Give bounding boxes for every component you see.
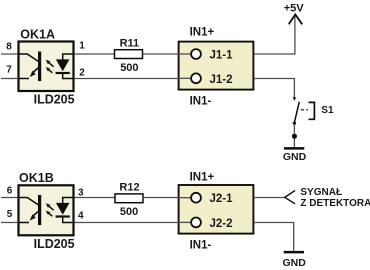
wire pin4 to J2 bbox=[75, 222, 178, 224]
svg-text:GND: GND bbox=[283, 257, 307, 269]
ground bar (S1) bbox=[284, 147, 304, 150]
svg-text:GND: GND bbox=[283, 151, 307, 163]
phototransistor collector (OK1A) bbox=[18, 54, 39, 62]
wire R11 to J1 bbox=[143, 53, 178, 55]
svg-text:S1: S1 bbox=[321, 105, 334, 116]
wire switch to GND bbox=[293, 123, 295, 147]
LED cathode bar bbox=[56, 72, 70, 74]
svg-text:IN1-: IN1- bbox=[190, 240, 212, 252]
svg-text:J2-1: J2-1 bbox=[210, 193, 234, 205]
wire J2-1 signal bbox=[254, 197, 284, 199]
connector J1 box bbox=[179, 42, 254, 90]
svg-text:6: 6 bbox=[7, 186, 13, 197]
LED triangle (OK1A) bbox=[56, 59, 70, 71]
wire stub to J2-1 bbox=[178, 197, 191, 199]
light arrow 2 bbox=[49, 214, 52, 217]
resistor R12 bbox=[115, 194, 143, 203]
svg-text:+5V: +5V bbox=[284, 2, 305, 14]
svg-text:2: 2 bbox=[79, 67, 85, 78]
LED cathode bar bbox=[56, 215, 70, 217]
svg-text:3: 3 bbox=[78, 187, 84, 198]
LED cathode lead bbox=[63, 218, 74, 223]
svg-text:J1-1: J1-1 bbox=[210, 50, 234, 62]
light arrow 1 bbox=[49, 206, 54, 210]
svg-text:7: 7 bbox=[6, 64, 12, 75]
svg-text:4: 4 bbox=[78, 210, 84, 221]
switch S1 lever bbox=[295, 102, 300, 122]
svg-text:J2-2: J2-2 bbox=[210, 218, 233, 230]
wire pin 6 bbox=[1, 197, 18, 199]
svg-text:ILD205: ILD205 bbox=[34, 93, 75, 107]
svg-text:OK1B: OK1B bbox=[19, 171, 54, 185]
pin circle J1-2 bbox=[191, 73, 201, 83]
svg-text:IN1-: IN1- bbox=[190, 95, 212, 107]
light arrow 1 bbox=[49, 63, 54, 67]
switch actuator bracket bbox=[309, 102, 315, 119]
connector J2 box bbox=[179, 185, 254, 234]
wire pin2 to J1 bbox=[75, 78, 178, 80]
svg-text:ILD205: ILD205 bbox=[34, 237, 75, 251]
phototransistor emitter (OK1A) bbox=[18, 68, 39, 79]
svg-text:1: 1 bbox=[79, 40, 85, 51]
svg-text:5: 5 bbox=[7, 209, 13, 220]
resistor R11 bbox=[115, 50, 143, 59]
svg-text:Z DETEKTORA: Z DETEKTORA bbox=[300, 198, 370, 209]
wire pin 7 bbox=[1, 78, 18, 80]
pin circle J2-1 bbox=[191, 193, 201, 203]
signal arrowhead bbox=[285, 190, 295, 203]
emitter arrowhead bbox=[30, 214, 36, 220]
junction dot bbox=[292, 134, 297, 139]
wire stub to J2-2 bbox=[178, 221, 191, 223]
wire stub to J1-1 bbox=[178, 53, 191, 55]
wire pin3 to R12 bbox=[75, 197, 116, 199]
phototransistor base bar (OK1A) bbox=[38, 52, 41, 82]
optocoupler OK1A bbox=[19, 42, 74, 92]
LED triangle (OK1B) bbox=[56, 203, 70, 215]
svg-text:R11: R11 bbox=[120, 37, 140, 49]
pin circle J2-2 bbox=[191, 218, 201, 228]
switch actuator dashed link bbox=[301, 109, 308, 111]
phototransistor collector (OK1B) bbox=[18, 198, 39, 206]
svg-text:IN1+: IN1+ bbox=[190, 27, 215, 39]
svg-text:OK1A: OK1A bbox=[20, 28, 55, 42]
light arrow 2 bbox=[49, 70, 52, 73]
pin circle J1-1 bbox=[191, 49, 201, 59]
svg-text:IN1+: IN1+ bbox=[190, 172, 215, 184]
wire J2-2 to GND bbox=[254, 223, 293, 251]
svg-text:500: 500 bbox=[120, 206, 138, 218]
phototransistor emitter (OK1B) bbox=[18, 211, 39, 222]
ground bar (J2-2) bbox=[284, 251, 304, 254]
emitter arrowhead bbox=[30, 71, 36, 77]
wire pin 5 bbox=[1, 222, 18, 224]
optocoupler OK1B bbox=[19, 185, 74, 235]
LED anode lead (OK1A) bbox=[63, 54, 74, 60]
svg-text:J1-2: J1-2 bbox=[210, 74, 233, 86]
wire stub to J1-2 bbox=[178, 77, 191, 79]
svg-text:8: 8 bbox=[6, 42, 12, 53]
phototransistor base bar (OK1B) bbox=[38, 195, 41, 225]
+5V arrow bbox=[289, 15, 303, 25]
wire pin1 to R11 bbox=[75, 53, 115, 55]
wire J1-1 to +5V bbox=[254, 16, 295, 54]
switch S1 bottom contact dot bbox=[293, 122, 296, 125]
svg-text:500: 500 bbox=[120, 62, 138, 74]
wire J1-2 to switch bbox=[254, 79, 294, 98]
LED cathode lead bbox=[63, 74, 74, 79]
wire R12 to J2 bbox=[143, 197, 178, 199]
LED anode lead (OK1B) bbox=[63, 198, 74, 204]
switch S1 top contact arrow bbox=[293, 97, 296, 101]
wire pin 8 bbox=[1, 53, 18, 55]
svg-text:R12: R12 bbox=[119, 182, 139, 194]
svg-text:SYGNAŁ: SYGNAŁ bbox=[300, 187, 342, 198]
